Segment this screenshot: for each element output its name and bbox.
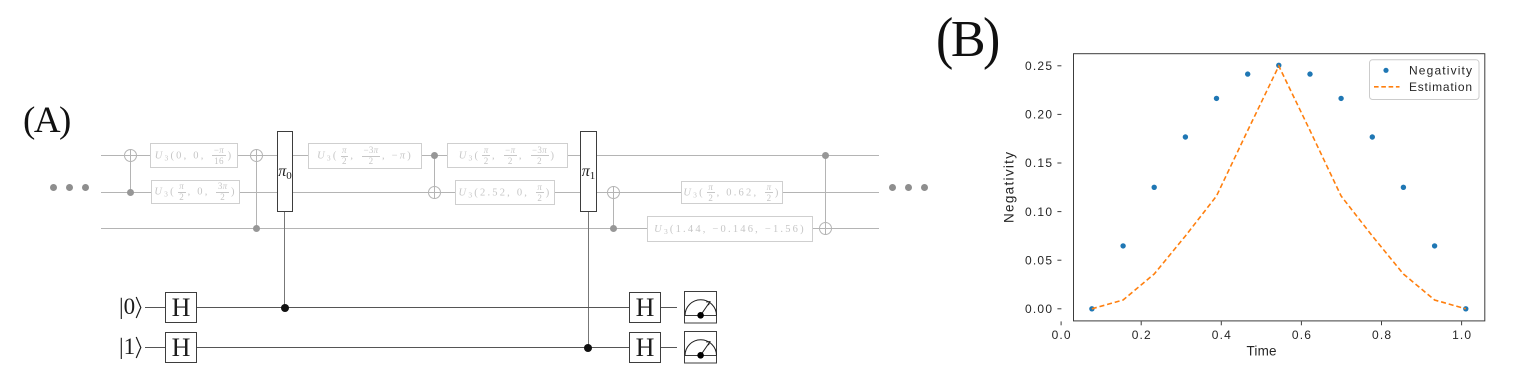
svg-text:Estimation: Estimation	[1409, 80, 1472, 94]
svg-text:1.0: 1.0	[1452, 328, 1471, 342]
svg-text:0.2: 0.2	[1132, 328, 1151, 342]
svg-text:0.4: 0.4	[1212, 328, 1231, 342]
svg-text:0.0: 0.0	[1052, 328, 1071, 342]
svg-text:Negativity: Negativity	[1409, 64, 1472, 78]
svg-text:Time: Time	[1247, 343, 1277, 358]
svg-text:0.6: 0.6	[1292, 328, 1311, 342]
svg-text:Negativity: Negativity	[1002, 152, 1017, 223]
svg-text:0.10: 0.10	[1025, 205, 1052, 219]
svg-text:0.20: 0.20	[1025, 108, 1052, 122]
svg-text:0.15: 0.15	[1025, 156, 1052, 170]
svg-text:0.00: 0.00	[1025, 302, 1052, 316]
svg-text:0.8: 0.8	[1372, 328, 1391, 342]
svg-text:0.05: 0.05	[1025, 253, 1052, 267]
svg-text:0.25: 0.25	[1025, 59, 1052, 73]
